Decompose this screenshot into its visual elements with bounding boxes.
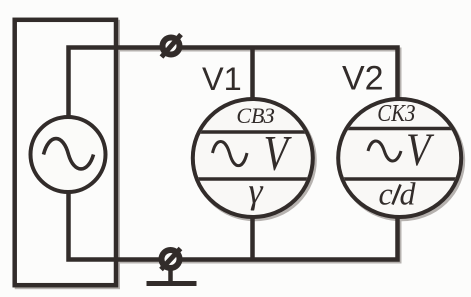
svg-text:d: d (400, 176, 417, 212)
label c/d (379, 176, 417, 212)
ground (147, 269, 197, 284)
svg-text:V: V (406, 124, 434, 176)
terminal X1 (top) (162, 35, 182, 58)
enclosure rectangle (15, 20, 116, 285)
svg-text:V: V (264, 125, 292, 180)
svg-text:V1: V1 (202, 61, 242, 97)
sine symbol V1 (213, 142, 248, 166)
svg-text:СКЗ: СКЗ (377, 99, 415, 126)
terminal X2 (bottom) (161, 249, 181, 270)
source circle shadow (33, 119, 108, 194)
wire shadow top (71, 50, 400, 120)
sine symbol V2 (368, 141, 401, 161)
wire shadow bottom (71, 192, 400, 262)
wire: source top lead and top bus to V2 (69, 48, 398, 120)
voltmeter U2 (V2) (338, 99, 462, 217)
sine symbol of source (44, 139, 94, 169)
svg-text:c: c (379, 176, 393, 212)
meter shadows (195, 101, 315, 219)
svg-text:СВЗ: СВЗ (236, 103, 274, 128)
voltmeter U1 (V1) (192, 99, 314, 217)
enclosure shadow (17, 22, 118, 287)
wire: V1 bottom lead (250, 217, 255, 260)
wire: V1 top lead (250, 48, 255, 100)
svg-text:V2: V2 (342, 60, 384, 98)
wire: source bottom lead and bottom bus to V2 (69, 192, 398, 260)
AC source G1 (31, 117, 106, 192)
svg-text:γ: γ (248, 171, 263, 211)
